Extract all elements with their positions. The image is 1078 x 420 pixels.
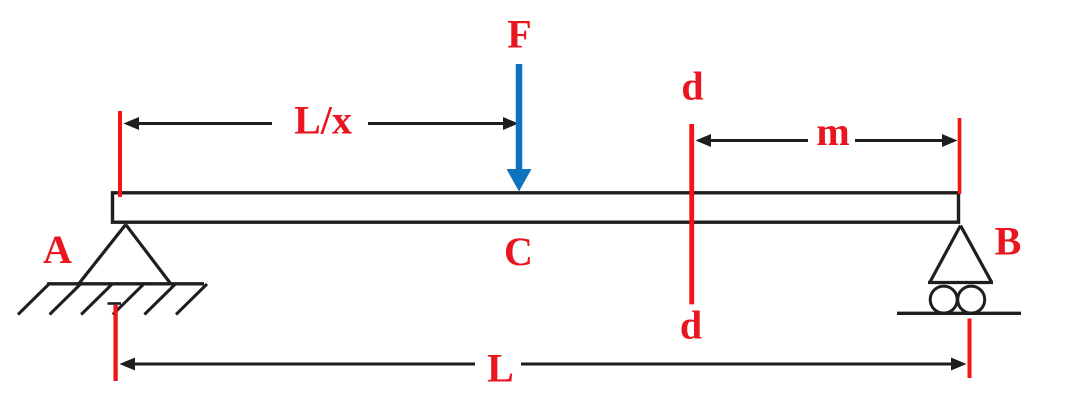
svg-text:d: d (680, 303, 702, 348)
svg-text:L: L (487, 346, 514, 391)
svg-text:F: F (507, 12, 531, 57)
svg-text:d: d (681, 64, 703, 109)
svg-text:A: A (43, 227, 72, 272)
svg-text:B: B (995, 219, 1022, 264)
svg-text:L/x: L/x (294, 98, 352, 143)
svg-text:C: C (504, 229, 533, 274)
svg-text:m: m (816, 109, 849, 154)
